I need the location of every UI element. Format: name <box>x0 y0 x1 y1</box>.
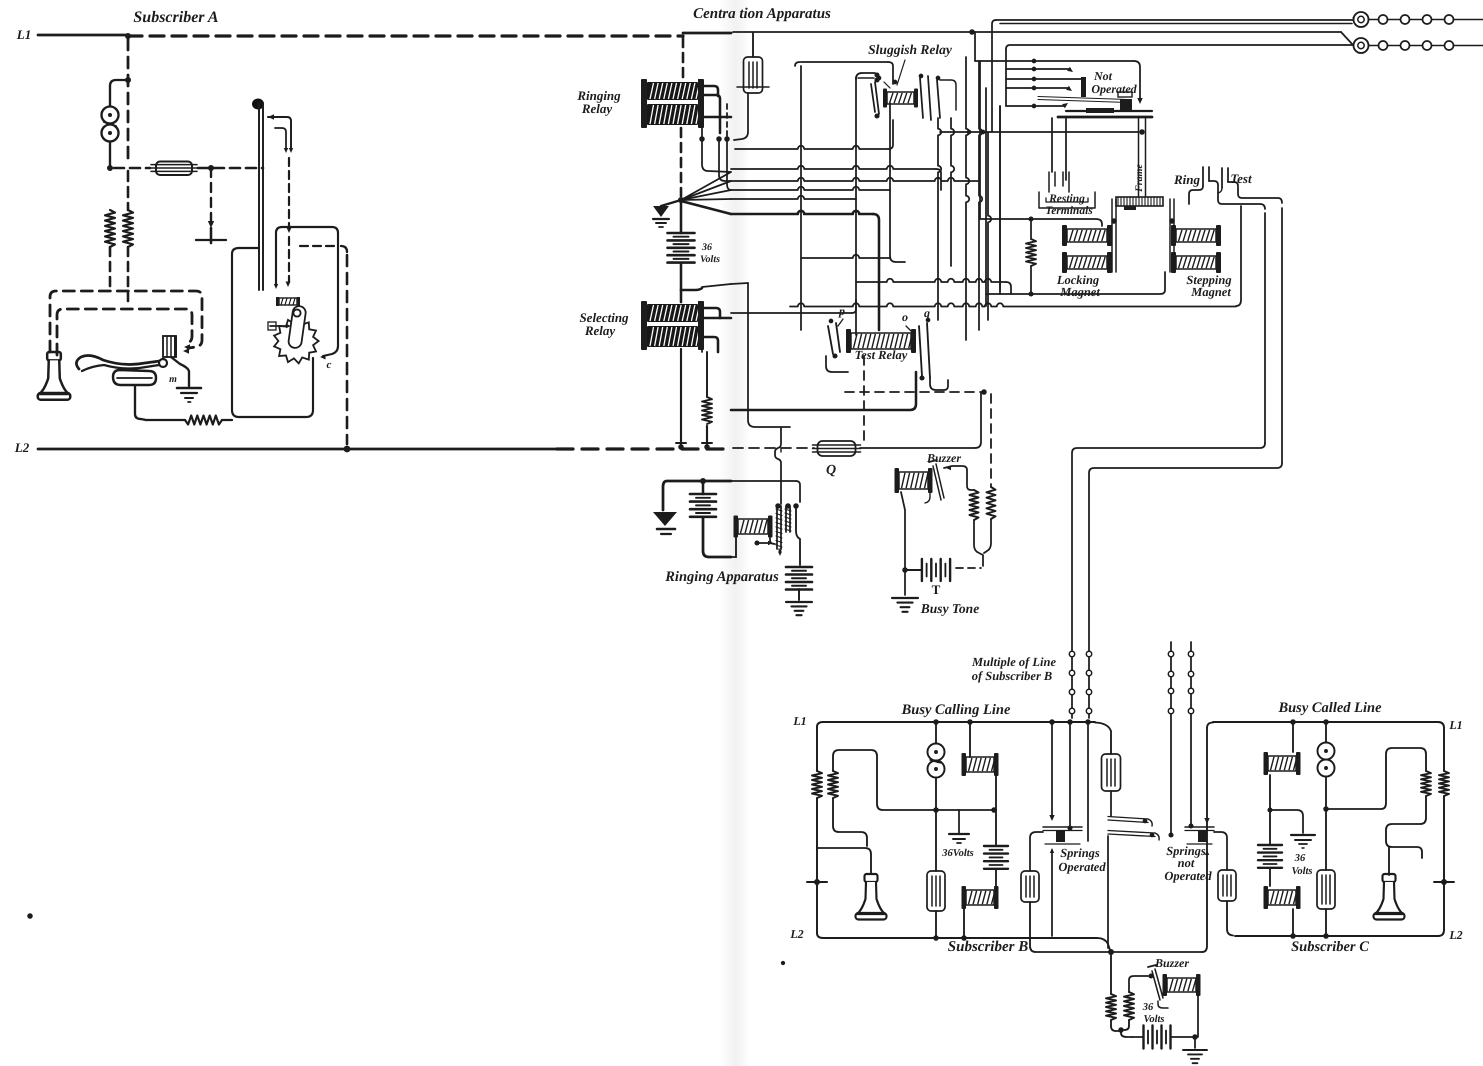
svg-text:Relay: Relay <box>581 101 613 116</box>
svg-text:Frame: Frame <box>1134 164 1145 193</box>
svg-text:Volts: Volts <box>700 254 720 265</box>
svg-text:Multiple of Line: Multiple of Line <box>971 655 1056 669</box>
svg-text:L2: L2 <box>14 440 30 455</box>
svg-text:Subscriber C: Subscriber C <box>1291 939 1369 955</box>
svg-text:o: o <box>902 310 908 324</box>
svg-text:36: 36 <box>1142 1002 1154 1013</box>
svg-text:Busy Tone: Busy Tone <box>920 601 979 616</box>
svg-text:L1: L1 <box>16 27 31 42</box>
svg-text:Volts: Volts <box>1143 1014 1164 1025</box>
svg-text:T: T <box>932 582 941 597</box>
svg-text:Ring: Ring <box>1173 172 1201 187</box>
svg-text:Busy Calling Line: Busy Calling Line <box>901 702 1011 718</box>
svg-text:L1: L1 <box>792 714 806 728</box>
svg-text:Terminals: Terminals <box>1045 205 1093 217</box>
svg-text:36Volts: 36Volts <box>941 848 974 859</box>
svg-text:Subscriber B: Subscriber B <box>948 939 1028 955</box>
svg-text:Subscriber A: Subscriber A <box>133 9 219 26</box>
svg-text:Not: Not <box>1093 69 1113 83</box>
svg-text:Volts: Volts <box>1291 866 1312 877</box>
svg-text:Q: Q <box>826 463 836 478</box>
svg-text:of Subscriber B: of Subscriber B <box>972 669 1053 683</box>
svg-text:Centra tion Apparatus: Centra tion Apparatus <box>693 6 831 22</box>
svg-text:Operated: Operated <box>1164 869 1212 883</box>
svg-text:m: m <box>169 374 177 385</box>
svg-text:c: c <box>327 359 332 371</box>
svg-text:Sluggish Relay: Sluggish Relay <box>868 42 953 57</box>
svg-text:Springs: Springs <box>1060 846 1100 860</box>
svg-text:Relay: Relay <box>584 323 616 338</box>
svg-text:L2: L2 <box>1448 928 1462 942</box>
svg-text:Resting: Resting <box>1048 193 1085 205</box>
svg-text:Test: Test <box>1230 171 1252 186</box>
svg-text:Operated: Operated <box>1091 82 1137 96</box>
svg-text:Test Relay: Test Relay <box>855 348 908 362</box>
svg-text:Busy Called Line: Busy Called Line <box>1277 700 1382 716</box>
svg-text:L2: L2 <box>789 927 803 941</box>
svg-text:Buzzer: Buzzer <box>926 451 961 465</box>
svg-text:not: not <box>1178 856 1195 870</box>
svg-text:36: 36 <box>701 242 712 253</box>
svg-text:Ringing Apparatus: Ringing Apparatus <box>664 569 779 585</box>
svg-text:L1: L1 <box>1448 718 1462 732</box>
svg-text:Magnet: Magnet <box>1059 285 1100 299</box>
svg-text:Magnet: Magnet <box>1190 285 1231 299</box>
svg-text:Buzzer: Buzzer <box>1154 956 1189 970</box>
svg-text:36: 36 <box>1294 853 1306 864</box>
svg-text:Operated: Operated <box>1058 860 1106 874</box>
